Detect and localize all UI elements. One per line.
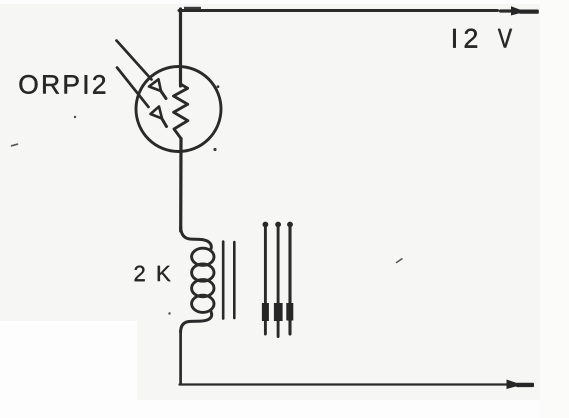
relay core line left <box>222 242 225 319</box>
LDR circle ORP12 <box>136 67 221 152</box>
wire: top rail after small gap <box>501 9 514 12</box>
light arrow 2 head <box>151 107 163 119</box>
arrow: top supply arrowhead <box>511 6 539 15</box>
wire: top-left vertical drop to LDR <box>179 9 182 86</box>
wire: vertical from coil to bottom rail <box>179 331 182 384</box>
light arrow 2 tip <box>162 118 167 127</box>
relay coil exit curve <box>181 311 212 332</box>
relay coil loop 1 <box>192 248 214 265</box>
light arrow 1 tip <box>161 91 167 99</box>
speck: dot near LDR top right <box>217 85 220 88</box>
wire: top horizontal supply rail <box>179 9 498 12</box>
light arrow 2 shaft <box>117 68 149 108</box>
relay core line right <box>233 242 236 318</box>
label 2K <box>135 266 171 281</box>
label ORP12 <box>19 75 105 94</box>
wire: bottom horizontal rail <box>180 383 510 385</box>
relay coil loop 3 <box>192 280 214 297</box>
speck: smudge on top rail <box>184 7 201 9</box>
relay contact lead 1 <box>262 222 269 334</box>
relay coil loop 2 <box>192 264 214 281</box>
light arrow 1 head <box>149 79 161 91</box>
relay coil loop 4 <box>192 295 214 312</box>
speck: tick mid right area <box>397 259 403 263</box>
relay contact lead 3 <box>286 222 293 334</box>
speck: dash at left margin <box>12 144 18 146</box>
label 12 V <box>453 29 512 48</box>
arrow: bottom rail arrowhead <box>507 380 535 390</box>
speck: dot near LDR bottom right <box>213 148 216 151</box>
speck: dot left of LDR <box>74 116 76 118</box>
resistor zigzag inside LDR <box>174 84 188 139</box>
relay coil entry curve <box>181 227 212 250</box>
wire: vertical from LDR down to relay coil <box>179 139 183 232</box>
speck: dot below 2K <box>168 312 170 314</box>
relay contact lead 2 <box>274 222 283 337</box>
light arrow 1 shaft <box>117 41 152 80</box>
